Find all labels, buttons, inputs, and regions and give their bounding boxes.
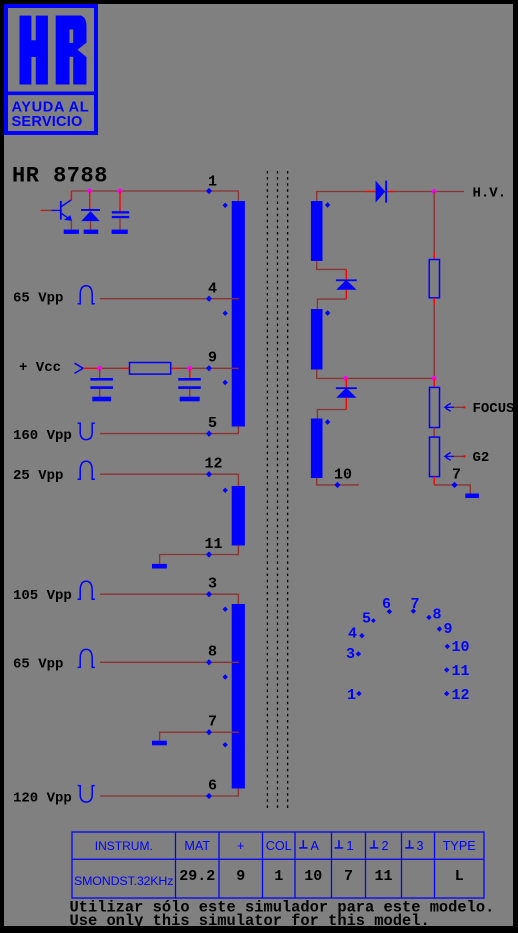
pin 12 [206,471,212,477]
waveform positive pulse [78,581,95,599]
wire pin 5 [100,427,238,434]
ground (C1) [112,230,128,234]
header gnd 2 [370,840,379,848]
potentiometer FOCUS [430,387,440,427]
wire HV to bleeder [433,192,435,253]
svg-text:25 Vpp: 25 Vpp [13,468,63,484]
svg-text:11: 11 [374,868,392,885]
node HV junction [432,189,437,194]
pin 9 [206,365,212,371]
ground (emitter) [64,230,79,234]
svg-text:HR 8788: HR 8788 [12,164,108,189]
wire pin 10 [317,478,359,485]
svg-text:FOCUS: FOCUS [473,401,515,417]
phase dot P1b [223,311,228,316]
phase dot P3b [223,674,228,679]
svg-text:COL: COL [266,839,292,853]
arrow Vcc [75,363,84,373]
svg-text:6: 6 [208,778,217,795]
core dashed line 1 [266,171,268,810]
svg-text:65 Vpp: 65 Vpp [13,290,63,306]
svg-text:Use only this simulator for th: Use only this simulator for this model. [70,912,430,930]
svg-text:10: 10 [334,467,352,484]
svg-text:INSTRUM.: INSTRUM. [95,839,153,853]
winding S3 [311,419,323,479]
pin 11 [206,551,212,557]
header gnd 3 [405,840,414,848]
pin 1 [206,188,212,194]
ground (pin 7 right) [465,494,479,499]
phase dot P3c [223,742,228,747]
svg-text:10: 10 [452,639,470,656]
HR logo box [4,6,98,133]
wire HV right [387,191,395,193]
TABLE [72,832,484,898]
phase dot P2 [223,488,228,493]
node junction (diode) [87,189,92,194]
SECONDARY [311,181,515,498]
pin 10 [334,482,340,488]
pin 6 [206,793,212,799]
waveform positive pulse [78,649,95,667]
header gnd 1 [335,840,344,848]
pad 1 [356,691,361,696]
FOOTER [70,899,495,930]
pad 3 [356,651,361,656]
node junction (C3) [187,366,192,371]
svg-text:L: L [455,868,464,885]
pad 6 [387,609,392,614]
diode D3 [336,279,357,299]
pad 5 [371,618,376,623]
transistor Q1 [41,191,72,230]
arrow FOCUS [444,403,466,411]
svg-text:9: 9 [236,868,245,885]
svg-text:9: 9 [444,621,453,638]
waveform negative pulse [78,786,95,802]
pin 7 left [206,729,212,735]
header gnd A [299,840,308,848]
ground (C3) [180,397,200,402]
waveform negative pulse [78,423,95,439]
pad 9 [437,626,442,631]
svg-text:G2: G2 [473,450,490,466]
svg-text:5: 5 [362,611,371,628]
wire pin 4 [100,298,239,300]
svg-text:5: 5 [208,415,217,432]
svg-text:9: 9 [208,350,217,367]
pad 10 [445,644,450,649]
wire pin1 top horizontal [71,191,238,201]
svg-text:H.V.: H.V. [473,185,507,201]
wire pin 7 right [433,477,435,485]
ground (pin 11) [152,564,167,569]
wire to focus pot [433,378,435,387]
node junction (cap) [118,189,123,194]
pad 4 [359,633,364,638]
capacitor C3 [178,368,201,396]
winding P3 (pins 3-8-7-6) [232,604,245,789]
svg-text:SERVICIO: SERVICIO [12,114,83,130]
wire bleeder down [433,298,435,305]
wire pin 6 [100,789,238,797]
node junction focus [432,376,437,381]
pin 8 [206,659,212,665]
pad 7 [411,608,416,613]
svg-text:2: 2 [382,839,389,853]
winding P2 (pins 12-11) [232,486,245,546]
potentiometer G2 [430,437,440,477]
CORE [267,171,287,810]
svg-text:65 Vpp: 65 Vpp [13,656,63,672]
svg-text:7: 7 [208,714,217,731]
ground (D1) [84,230,99,234]
node junction D4 [343,376,348,381]
wire HV top [317,192,366,202]
svg-text:A: A [311,839,320,853]
svg-text:SMONDST.32KHz: SMONDST.32KHz [74,874,173,888]
diode D4 [336,378,357,409]
pad 8 [426,615,431,620]
waveform positive pulse [78,286,95,304]
winding S2 [311,309,323,370]
svg-text:1: 1 [274,868,283,885]
svg-text:1: 1 [347,839,354,853]
svg-text:8: 8 [433,607,442,624]
svg-text:11: 11 [452,663,470,680]
logo divider bar [4,92,98,96]
svg-text:11: 11 [205,536,223,553]
wire S2 to focus rail [317,370,435,379]
pin 4 [206,296,212,302]
svg-text:160 Vpp: 160 Vpp [13,428,72,444]
phase dot S3 [325,419,330,424]
capacitor C2 [90,368,113,396]
wire pin 12 [100,474,238,486]
letter R [56,16,87,85]
svg-text:12: 12 [452,687,470,704]
ground (pin 7) [152,741,167,746]
svg-text:120 Vpp: 120 Vpp [13,791,72,807]
core dashed line 3 [287,171,289,810]
svg-text:4: 4 [348,626,357,643]
wire pin 3 [100,594,238,604]
resistor R vcc [130,363,171,375]
wire D4 to S3 [317,410,346,419]
phase dot P1a [223,203,228,208]
wire pin 9 [83,367,100,369]
svg-text:29.2: 29.2 [179,868,215,885]
svg-text:105 Vpp: 105 Vpp [13,588,72,604]
svg-text:3: 3 [208,576,217,593]
svg-text:3: 3 [417,839,424,853]
wire D3 to S2 [317,299,346,309]
waveform positive pulse [78,461,95,479]
wire pin 11 [160,546,239,564]
capacitor C1 [112,191,129,230]
winding S1 [311,201,323,261]
svg-text:8: 8 [208,644,217,661]
svg-text:TYPE: TYPE [443,839,476,853]
wire pin 7 left [160,732,239,741]
diode D2 HV rectifier [376,181,388,203]
phase dot S1 [325,202,330,207]
svg-text:+: + [237,839,244,853]
svg-text:+ Vcc: + Vcc [19,360,61,376]
letter H [20,16,48,85]
svg-text:6: 6 [382,596,391,613]
PRIMARY [13,174,245,807]
svg-text:1: 1 [347,687,356,704]
pin 5 [206,431,212,437]
svg-text:1: 1 [208,174,217,191]
phase dot P1c [223,380,228,385]
pin 3 [206,591,212,597]
ground (C2) [92,397,111,402]
pad 12 [444,691,449,696]
resistor R bleeder [429,260,439,298]
svg-text:MAT: MAT [184,839,210,853]
core dashed line 2 [277,171,279,810]
svg-text:3: 3 [346,646,355,663]
wire S1 to D3 [317,261,347,269]
wire focus to g2 [433,428,435,438]
phase dot P3a [223,607,228,612]
svg-text:7: 7 [344,868,353,885]
pad 11 [444,667,449,672]
winding P1 (pins 1-4-9-5) [232,201,245,427]
pin 7 right [451,482,457,488]
arrow G2 [444,453,466,461]
svg-text:4: 4 [208,281,217,298]
svg-text:10: 10 [304,868,322,885]
table grid [72,832,484,898]
diode D1 damper [81,191,100,230]
wire pin 8 [100,661,239,663]
node junction (C2) [97,366,102,371]
svg-text:7: 7 [411,596,420,613]
svg-text:7: 7 [452,466,461,483]
svg-text:12: 12 [205,456,223,473]
phase dot S2 [325,310,330,315]
PINVIEW [346,596,470,704]
